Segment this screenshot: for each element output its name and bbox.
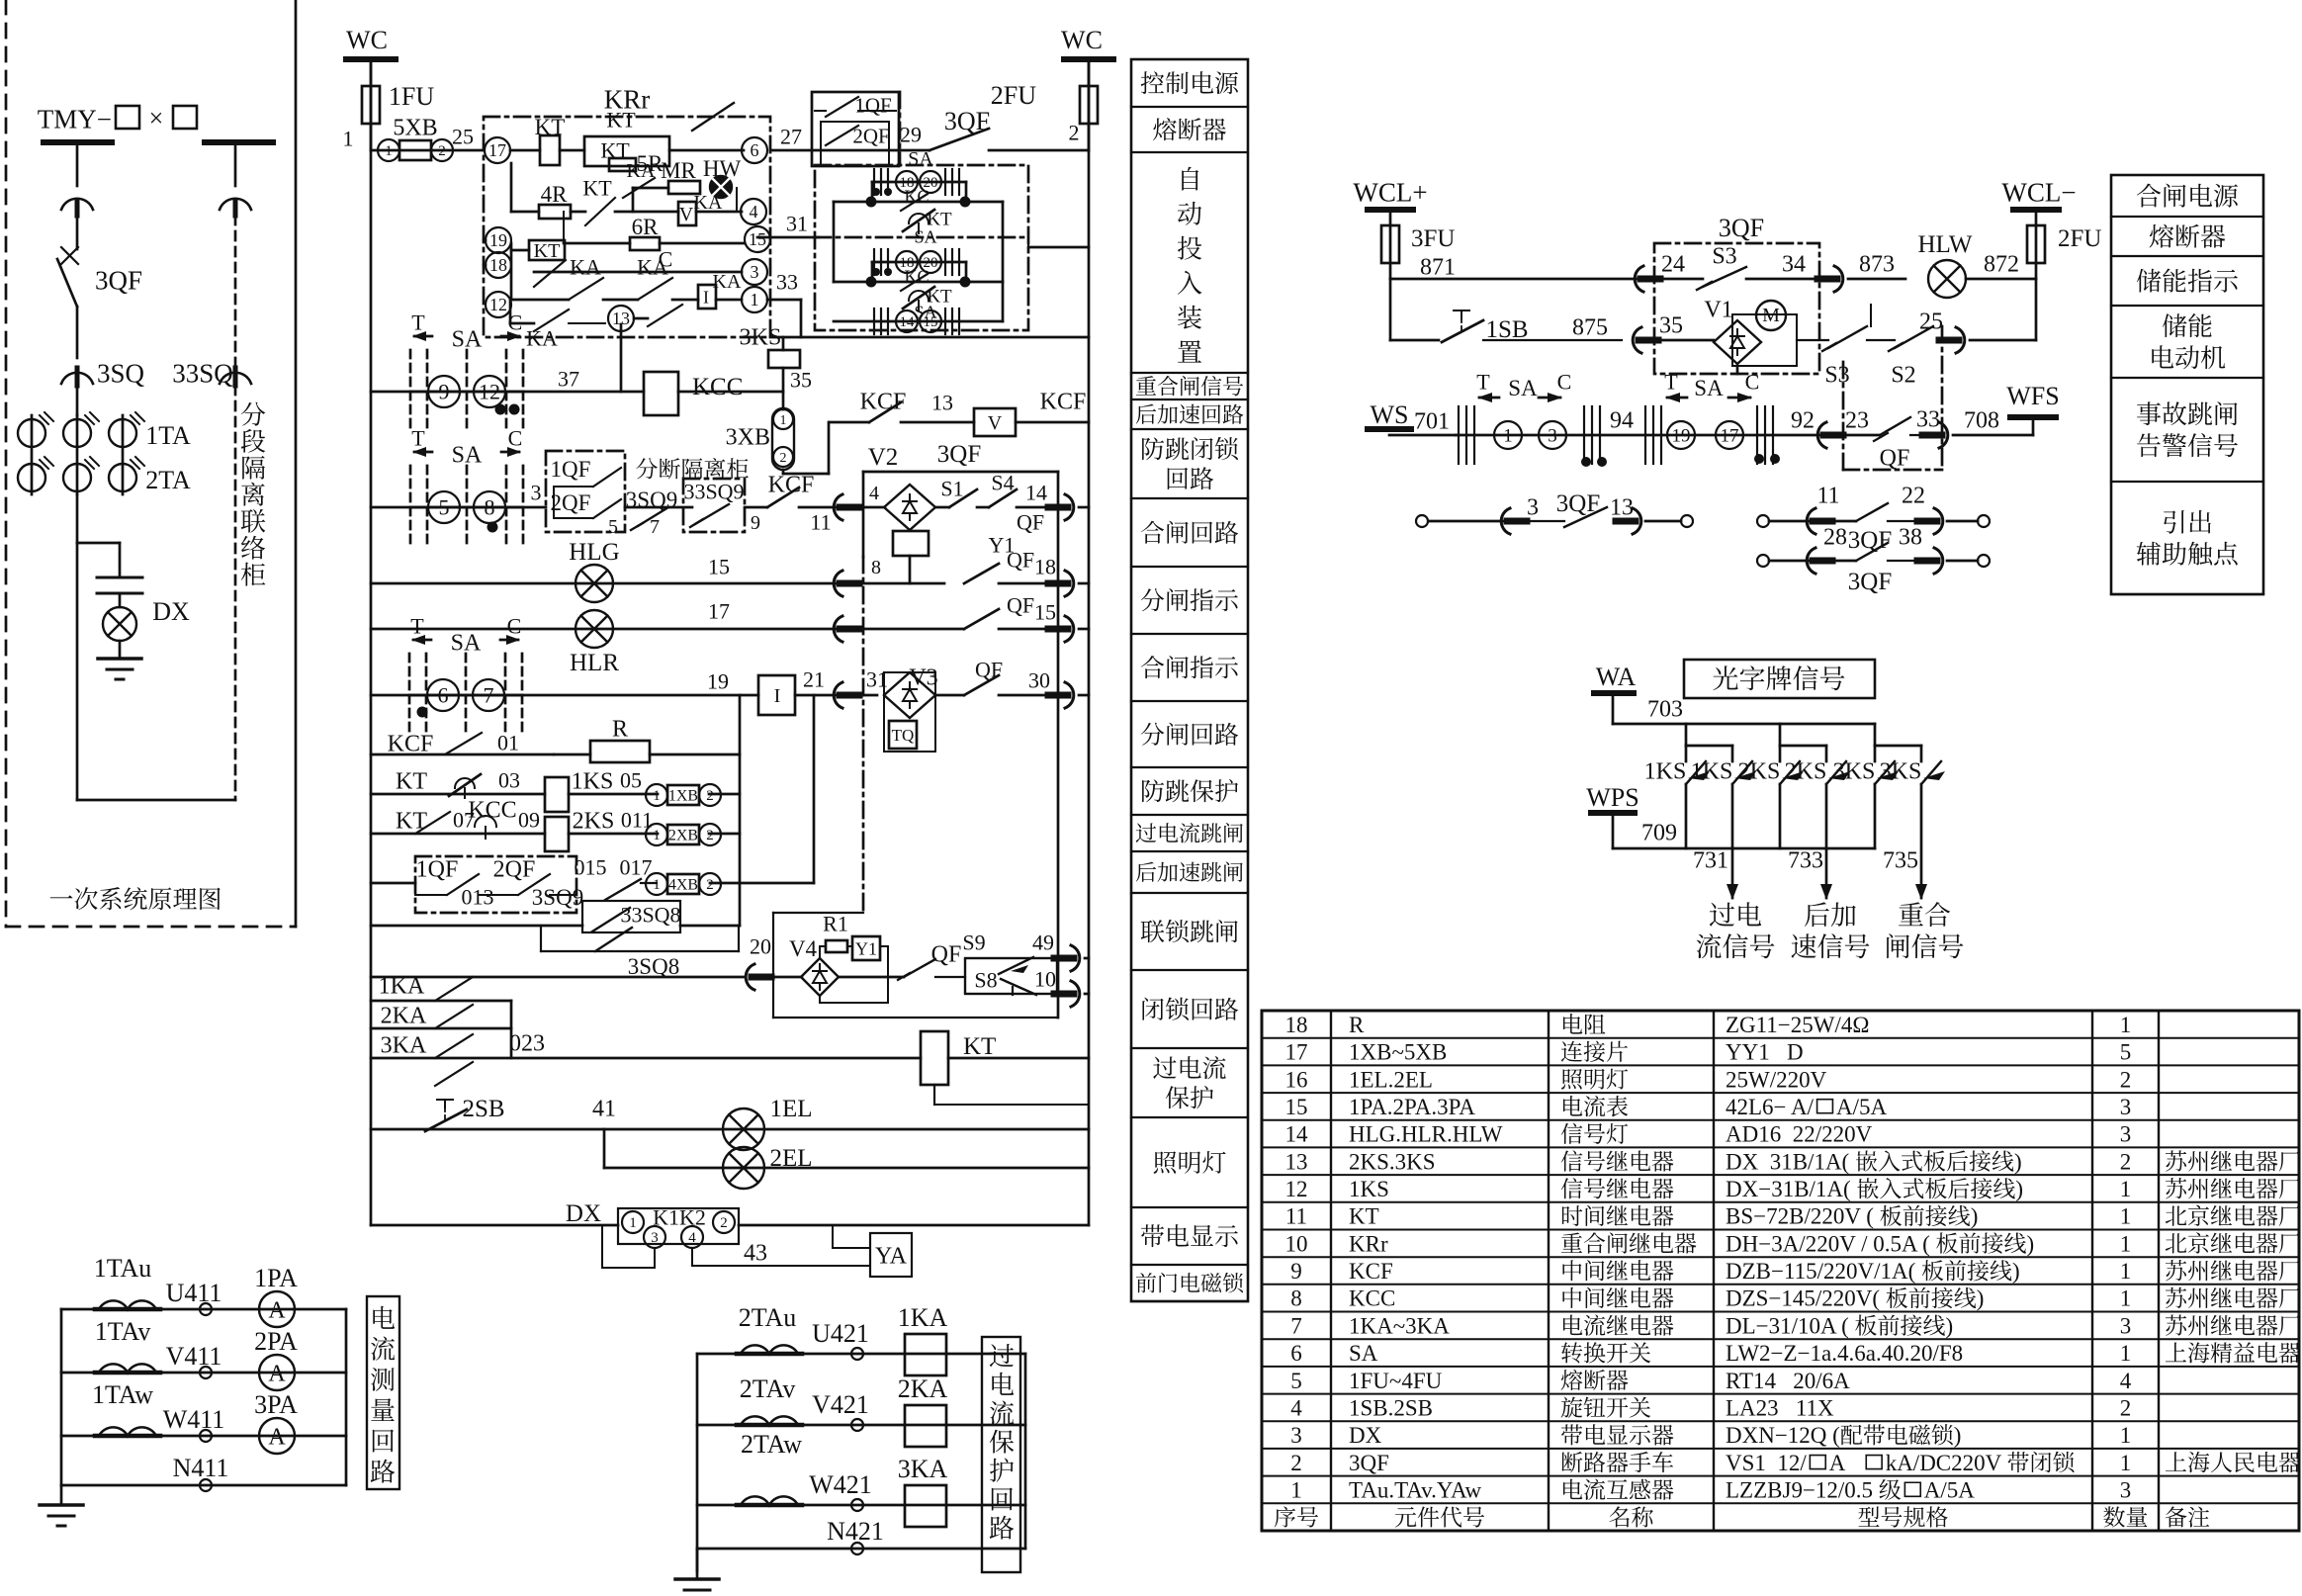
svg-text:701: 701 [1414,408,1450,434]
plug [834,494,842,520]
rail 1 top [371,149,484,152]
svg-text:1KA: 1KA [379,973,425,999]
svg-text:KCF: KCF [388,731,434,756]
wire [76,494,79,543]
svg-text:A/5A: A/5A [1836,1095,1888,1119]
svg-text:V2: V2 [868,444,899,471]
svg-text:3: 3 [531,481,542,505]
svg-text:2KS: 2KS [573,808,615,834]
svg-text:3QF: 3QF [1349,1451,1389,1475]
node V411 [200,1367,212,1378]
svg-text:94: 94 [1610,407,1634,433]
dash links [1736,366,1739,374]
terminal 15 [745,226,770,252]
relay coil 3KA [905,1485,946,1527]
svg-text:33: 33 [1916,406,1940,432]
svg-text:3: 3 [2120,1095,2132,1119]
svg-text:875: 875 [1572,314,1608,340]
svg-text:KC: KC [904,266,929,286]
svg-text:1: 1 [2120,1177,2132,1201]
contact QF lock [904,959,935,977]
svg-text:C: C [1557,370,1572,395]
aux contact row 3 [1757,555,1769,567]
svg-text:S1: S1 [940,477,963,501]
svg-text:T: T [1664,370,1678,395]
svg-text:): ) [1977,1286,1985,1311]
svg-text:K1K2: K1K2 [653,1205,706,1230]
svg-text:S2: S2 [1891,362,1915,388]
svg-text:N421: N421 [827,1517,884,1546]
box 33SQ9 [683,479,745,532]
rail locking V4 [371,976,745,979]
cabinet label 2 [636,458,658,479]
svg-text:1QF: 1QF [551,457,591,482]
rail 1 segment [770,149,930,152]
signal relay 2KS [545,817,569,851]
svg-text:15: 15 [924,314,938,330]
svg-text:1XB: 1XB [668,788,698,805]
wire [76,142,79,186]
svg-text:1: 1 [780,413,787,428]
svg-text:HLG: HLG [569,539,619,566]
svg-text:KT: KT [606,108,636,133]
signal lamp HLW [1928,260,1966,298]
svg-text:QF: QF [1007,548,1034,573]
svg-text:TAu.TAv.YAw: TAu.TAv.YAw [1349,1478,1481,1503]
svg-text:2TAu: 2TAu [739,1303,797,1332]
svg-text:DXN−12Q (: DXN−12Q ( [1726,1423,1840,1448]
rail red lamp [371,628,845,631]
lamp 1EL [723,1108,764,1150]
SA group 3 [834,320,1003,323]
svg-text:11: 11 [810,510,831,535]
fuse 2FU b [2035,210,2038,279]
svg-text:13: 13 [1610,494,1634,520]
svg-text:22: 22 [1902,483,1925,508]
svg-text:KA: KA [570,255,601,280]
svg-text:1: 1 [653,877,661,893]
svg-text:S4: S4 [991,471,1014,495]
svg-text:28: 28 [1823,524,1847,550]
svg-text:1SB.2SB: 1SB.2SB [1349,1396,1433,1421]
signal outputs [1731,784,1734,898]
svg-text:2: 2 [2120,1396,2132,1421]
svg-text:LZZBJ9−12/0.5: LZZBJ9−12/0.5 [1726,1478,1873,1503]
svg-text:S9: S9 [962,931,985,955]
svg-text:18: 18 [489,255,507,275]
svg-text:QF: QF [931,941,962,967]
svg-text:13: 13 [931,391,953,415]
svg-text:KT: KT [535,115,566,139]
contact S3 a [1660,278,1703,281]
signal relay 3KS [782,337,785,350]
svg-text:KA: KA [637,255,668,280]
svg-text:SA: SA [1349,1341,1378,1366]
contact below 3KA [435,1062,473,1086]
svg-text:1XB~5XB: 1XB~5XB [1349,1040,1447,1065]
svg-text:V: V [679,204,694,225]
rail 3KA KT [371,1057,921,1060]
contactor coil KCC [644,372,678,415]
svg-text:1KS: 1KS [572,768,614,794]
caption primary diagram [50,895,73,898]
svg-text:KCF: KCF [1349,1259,1393,1284]
bill of materials table [1262,1011,2299,1531]
svg-text:R: R [1349,1013,1365,1037]
svg-text:2KA: 2KA [898,1374,948,1403]
svg-text:92: 92 [1791,407,1815,433]
locking circuit box [772,913,774,1018]
svg-text:KC: KC [904,186,929,206]
svg-text:W421: W421 [809,1470,872,1499]
svg-text:5XB: 5XB [393,115,437,140]
svg-text:25: 25 [1919,309,1943,334]
svg-text:708: 708 [1964,407,1999,433]
contact KT 1 [903,210,934,231]
coil KT box [529,240,565,260]
svg-text:3SQ9: 3SQ9 [532,885,583,910]
svg-text:KA: KA [627,160,656,182]
svg-text:2QF: 2QF [551,490,591,515]
svg-text:871: 871 [1420,254,1456,280]
svg-text:2XB: 2XB [668,828,698,844]
svg-text:U411: U411 [166,1279,222,1307]
rail lighting 2SB [371,1128,1089,1131]
svg-text:YY1 D: YY1 D [1726,1040,1804,1065]
svg-text:2KA: 2KA [381,1003,427,1028]
svg-text:33SQ8: 33SQ8 [620,903,680,928]
drawout contact right [220,199,251,210]
aux contact row 1 [1681,515,1693,527]
svg-text:1SB: 1SB [1485,316,1528,343]
rail 2KA [371,1027,511,1030]
svg-text:): ) [2012,1259,2020,1284]
svg-text:1: 1 [2120,1423,2132,1448]
svg-text:9: 9 [751,512,760,534]
svg-text:6R: 6R [632,215,660,239]
svg-text:5: 5 [608,516,618,538]
link 3XB [772,408,794,470]
svg-text:1: 1 [2120,1286,2132,1311]
T SA C a [1479,397,1499,399]
signal relay 1KS [545,777,569,812]
contact KC 2 [834,281,1003,284]
svg-text:WCL+: WCL+ [1353,177,1427,207]
svg-text:1: 1 [2120,1451,2132,1475]
relay coil 1KA [905,1334,946,1375]
svg-text:1: 1 [385,143,393,159]
svg-text:4XB: 4XB [668,877,698,894]
svg-text:2TAv: 2TAv [740,1374,796,1403]
svg-text:U421: U421 [812,1319,869,1348]
contact S2 [1895,326,1933,348]
svg-text:23: 23 [1845,407,1869,433]
terminal 3 [742,259,767,285]
svg-text:A: A [268,1361,286,1386]
rail 2EL [603,1129,606,1168]
contact KC 1 [834,201,1003,204]
svg-text:1: 1 [2120,1013,2132,1037]
wire [833,202,836,282]
svg-text:T: T [411,310,425,335]
svg-text:T: T [1476,370,1490,395]
svg-text:2: 2 [438,143,446,159]
svg-text:18: 18 [1034,555,1056,579]
svg-text:T: T [410,614,424,639]
svg-text:03: 03 [498,768,520,793]
svg-text:1TAv: 1TAv [95,1317,151,1346]
svg-text:9: 9 [1290,1259,1302,1284]
svg-text:DX 31B/1A(: DX 31B/1A( [1726,1149,1849,1174]
svg-text:DL−31/10A (: DL−31/10A ( [1726,1313,1849,1338]
svg-text:6: 6 [1290,1341,1302,1366]
terminal 12 [486,292,511,317]
svg-text:1: 1 [653,788,661,804]
SA group 9 12 [371,391,644,394]
svg-text:DX: DX [152,597,190,626]
svg-text:42L6− A/: 42L6− A/ [1726,1095,1815,1119]
svg-text:S3: S3 [1712,243,1736,269]
rail green lamp [371,582,845,585]
ammeter 2PA [259,1355,295,1390]
svg-text:HLW: HLW [1917,231,1972,258]
contact QF 15 [964,609,999,629]
SA KC block [815,165,1028,330]
resistor R [590,741,650,762]
svg-text:2FU: 2FU [2058,225,2101,252]
signal wiring top [1613,723,1875,726]
svg-text:KCC: KCC [692,374,743,400]
rectifier V4 [801,958,839,996]
svg-text:): ) [1971,1204,1979,1229]
lamp HLR [575,610,613,648]
busbar sections [44,139,112,145]
CT 1TAv [95,1371,160,1375]
svg-text:1KS: 1KS [1644,758,1687,784]
link 5XB [378,139,399,161]
contact QF 18 [964,564,999,583]
wire [76,543,79,800]
svg-text:14: 14 [1025,481,1047,505]
svg-text:ZG11−25W/4Ω: ZG11−25W/4Ω [1726,1013,1869,1037]
contact S9 [999,957,1033,974]
svg-text:15: 15 [708,555,730,579]
svg-text:HLR: HLR [570,650,619,676]
svg-text:KRr: KRr [1349,1231,1388,1256]
svg-text:3XB: 3XB [726,424,770,450]
svg-text:3: 3 [1527,494,1539,520]
svg-text:05: 05 [620,768,642,793]
svg-text:QF: QF [975,658,1003,682]
svg-text:49: 49 [1032,931,1054,955]
svg-text:V1: V1 [1704,297,1732,322]
svg-text:10: 10 [1285,1231,1308,1256]
svg-text:Y1: Y1 [855,938,877,958]
CT 2TAu [737,1352,802,1357]
svg-text:873: 873 [1859,251,1895,277]
closing power label column [2111,175,2263,594]
svg-text:SA: SA [1508,376,1538,400]
wire [76,386,79,415]
svg-text:1TAu: 1TAu [94,1254,152,1283]
ground [98,657,141,661]
svg-text:35: 35 [1659,312,1683,338]
terminal 18 [486,252,511,278]
contact QF ws [1880,417,1910,435]
box 1QF 2QF closing [546,451,625,532]
svg-text:24: 24 [1661,251,1685,277]
svg-text:1TAw: 1TAw [92,1380,153,1409]
svg-text:KT: KT [963,1033,996,1060]
svg-text:21: 21 [803,667,825,692]
rail 1KA [371,1000,511,1003]
svg-text:DZS−145/220V(: DZS−145/220V( [1726,1286,1880,1311]
svg-text:SA: SA [908,148,933,170]
svg-text:023: 023 [509,1030,545,1056]
primary one-line diagram frame [5,0,8,927]
svg-text:2: 2 [706,828,714,843]
svg-text:KT: KT [582,176,612,201]
svg-text:6: 6 [751,140,759,160]
svg-text:C: C [507,614,522,639]
svg-text:3SQ: 3SQ [97,358,145,388]
svg-text:7: 7 [650,516,660,538]
overcurrent protection circuit [696,1354,699,1571]
svg-text:15: 15 [1285,1095,1308,1119]
rail 1QF 2QF 4XB [371,882,415,885]
svg-text:3SQ9: 3SQ9 [626,488,677,512]
lamp 2EL [723,1147,764,1189]
function label column [1131,59,1248,1301]
svg-text:C: C [508,310,523,335]
contact 1QF [826,97,858,117]
svg-text:4: 4 [2120,1369,2132,1393]
svg-text:2: 2 [720,1215,728,1231]
rail bottom DX [371,1224,618,1227]
svg-text:1: 1 [751,290,759,310]
svg-text:15: 15 [1034,600,1056,625]
link 2XB [646,824,667,845]
svg-text:V: V [988,412,1003,434]
svg-text:20: 20 [750,934,771,959]
ground measurement [60,1485,63,1505]
svg-text:YA: YA [875,1243,908,1269]
CT row 1TA [18,419,45,447]
svg-text:KT: KT [1349,1204,1379,1229]
staircase to KCF row [782,470,785,474]
svg-text:3KS: 3KS [740,324,782,350]
svg-text:017: 017 [620,855,653,880]
svg-text:1: 1 [2120,1259,2132,1284]
box V [678,202,696,225]
svg-text:013: 013 [462,885,494,910]
svg-text:kA/DC220V: kA/DC220V [1886,1451,2002,1475]
svg-text:38: 38 [1899,524,1922,550]
svg-text:3QF: 3QF [1848,527,1892,554]
svg-text:7: 7 [484,683,494,708]
svg-text:3KS: 3KS [1833,758,1876,784]
terminal 19 [486,227,511,253]
svg-text:A: A [1829,1451,1857,1475]
svg-text:3: 3 [751,262,759,282]
contact 3KS [1920,746,1923,761]
svg-text:15: 15 [749,229,766,249]
contact KCF [830,421,869,424]
breaker trolley box V2 [862,472,865,557]
svg-text:2QF: 2QF [852,124,889,147]
rail KCF R [371,754,554,756]
svg-text:1: 1 [653,828,661,843]
svg-text:1KS: 1KS [1349,1177,1389,1201]
svg-text:18: 18 [1285,1013,1308,1037]
contact 2KS [1825,746,1828,761]
svg-text:QF: QF [1880,445,1910,471]
svg-text:1: 1 [2120,1341,2132,1366]
svg-text:KT: KT [396,768,427,794]
svg-text:3QF: 3QF [944,107,990,135]
svg-text:4: 4 [688,1230,696,1246]
svg-text:2: 2 [780,451,787,466]
svg-text:12: 12 [489,295,507,314]
svg-text:31: 31 [786,212,808,236]
box 1QF 2QF [812,92,899,166]
svg-text:): ) [2015,1177,2023,1201]
rail 33SQ8 [371,925,582,928]
svg-text:WC: WC [346,26,388,54]
svg-text:3PA: 3PA [254,1390,298,1419]
svg-text:5: 5 [2120,1040,2132,1065]
svg-text:M: M [1762,305,1780,326]
contact 3SQ9 [625,506,692,509]
svg-text:1QF: 1QF [854,93,891,117]
coil I trip [758,675,795,715]
box S8 S9 [965,958,1057,994]
svg-text:43: 43 [744,1240,767,1266]
terminal 17 [485,137,510,163]
svg-text:33: 33 [776,270,798,295]
breaker 3QF [76,216,79,249]
coil I [698,285,716,309]
svg-text:5: 5 [439,495,450,520]
svg-text:09: 09 [518,808,540,833]
svg-text:11: 11 [1816,483,1839,508]
rail KT KCC 2KS [371,833,545,836]
svg-text:S8: S8 [974,968,997,993]
svg-text:17: 17 [488,140,506,160]
contact S4 [977,506,989,509]
svg-text:14: 14 [900,314,916,330]
plug out [1065,494,1074,520]
electromagnet YA [832,1225,834,1248]
svg-text:2SB: 2SB [462,1096,504,1122]
contact KT with 5R [584,136,669,166]
capacitive divider [97,576,142,579]
svg-text:1: 1 [1290,1478,1302,1503]
SA bars group a [1458,406,1460,464]
svg-text:V421: V421 [812,1390,869,1419]
node W411 [200,1430,212,1442]
svg-text:1TA: 1TA [145,421,191,450]
caption current measurement [367,1296,399,1489]
svg-text:2: 2 [706,788,714,804]
time relay KT coil [921,1031,948,1085]
svg-text:35: 35 [790,368,812,393]
svg-text:TQ: TQ [892,726,915,745]
svg-text:703: 703 [1647,696,1683,722]
rail 31 [757,236,819,239]
caption overcurrent protection [982,1337,1020,1572]
svg-text:8: 8 [1290,1286,1302,1311]
